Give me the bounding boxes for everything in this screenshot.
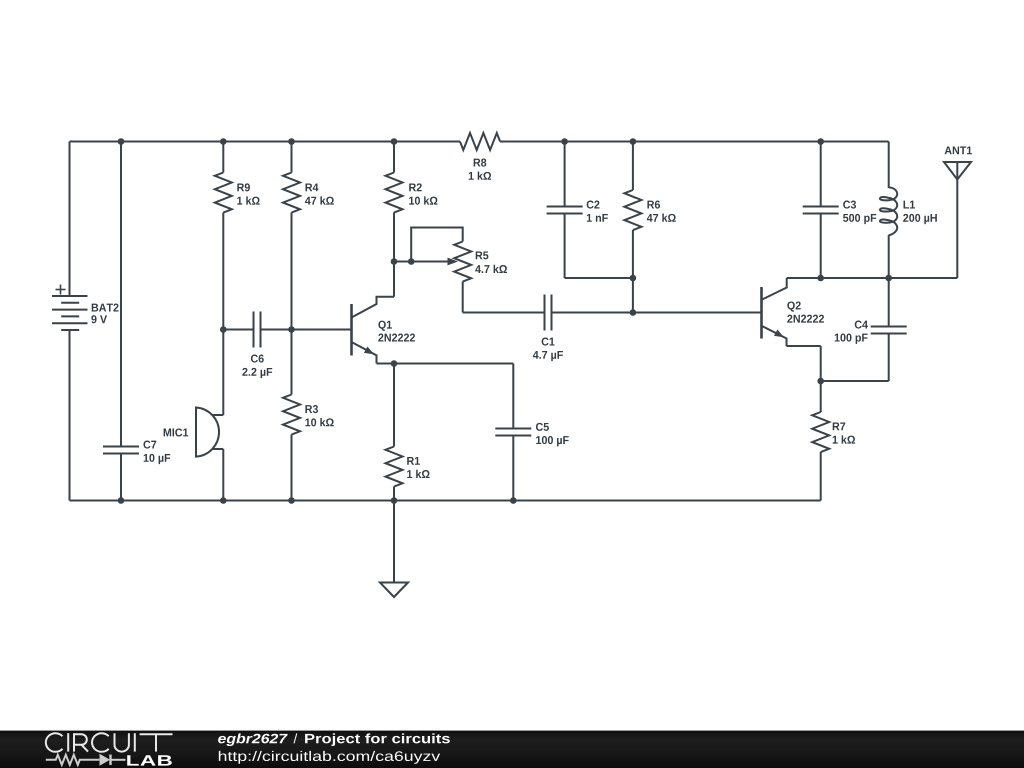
node top rail / C3 (817, 138, 824, 145)
wire C2 branch (565, 142, 633, 279)
node C2-R6 junction (630, 275, 637, 282)
wire Q1 emitter to C5 (377, 363, 514, 365)
node bottom rail / C7 (118, 497, 125, 504)
wire C5 branch (512, 364, 514, 501)
wire R7 branch (820, 381, 822, 501)
node top rail / R4 (288, 138, 295, 145)
wire Q1 base (223, 329, 351, 331)
node L1-C4 junction (885, 275, 892, 282)
node Q1 base / R4-R3 (288, 326, 295, 333)
footer bar (0, 730, 1024, 768)
resistor R3 (283, 395, 334, 435)
resistor R2 (386, 173, 438, 213)
wire bottom rail (70, 500, 821, 502)
resistor R8 (460, 133, 500, 180)
node Q2 emitter / R7-C4 (817, 378, 824, 385)
node top rail / C7 (118, 138, 125, 145)
inductor L1 (880, 187, 937, 235)
resistor R9 (215, 173, 260, 213)
capacitor C1 (533, 295, 563, 362)
capacitor C5 (495, 423, 568, 447)
footer credit text (218, 733, 450, 763)
capacitor C6 (242, 312, 272, 379)
antenna ANT1 (944, 146, 972, 179)
wire Q2 collector rail (787, 277, 958, 279)
node R6-C1 wire (630, 309, 637, 316)
wire top rail (70, 141, 889, 143)
resistor R7 (812, 412, 855, 452)
capacitor C3 (803, 201, 877, 225)
wire C7 branch (120, 142, 122, 501)
capacitor C2 (547, 201, 608, 222)
wire ANT1 drop (956, 162, 958, 278)
battery BAT2 (52, 285, 119, 331)
logo resistor-diode icon (46, 754, 126, 766)
node top rail / C2 (561, 138, 568, 145)
node Q1 base / R9-MIC (220, 326, 227, 333)
wire R4-R3 branch (291, 142, 293, 501)
wire R5 bottom to C1 to Q2 base (463, 282, 762, 313)
node top rail / R2 (391, 138, 398, 145)
resistor R1 (386, 447, 430, 487)
wire R2-Q1 collector branch (393, 142, 395, 297)
wire R9-MIC branch (222, 142, 224, 501)
node top rail / R9 (220, 138, 227, 145)
wire L1 branch (888, 142, 890, 279)
capacitor C4 (835, 321, 907, 344)
capacitor C7 (103, 441, 170, 465)
wire R5 wiper (394, 261, 449, 263)
wire C4 branch (888, 278, 890, 381)
transistor Q2 (762, 278, 825, 346)
resistor R6 (624, 190, 675, 230)
node top rail / R6 (630, 138, 637, 145)
node bottom rail / R3 (288, 497, 295, 504)
CircuitLab logo CIRCUIT (46, 733, 173, 752)
node Q1 emitter / R1 (391, 360, 398, 367)
node R5 wiper loop (408, 258, 415, 265)
node R2-R5 wiper (391, 258, 398, 265)
potentiometer R5 (448, 242, 507, 282)
wire Q2 emitter to C4 (787, 346, 889, 381)
transistor Q1 (352, 297, 416, 364)
wire left battery branch (69, 142, 71, 501)
node bottom rail / R1-ground (391, 497, 398, 504)
ground (380, 501, 408, 598)
wire R1 branch (393, 364, 395, 501)
node bottom rail / MIC1 (220, 497, 227, 504)
microphone MIC1 (164, 408, 224, 457)
wire R5 top loop (411, 228, 463, 262)
node bottom rail / C5 (510, 497, 517, 504)
wire C3 branch (820, 142, 822, 279)
wire R6 branch (632, 142, 634, 313)
node C3 bottom (817, 275, 824, 282)
logo LAB (127, 755, 172, 765)
resistor R4 (283, 173, 334, 213)
